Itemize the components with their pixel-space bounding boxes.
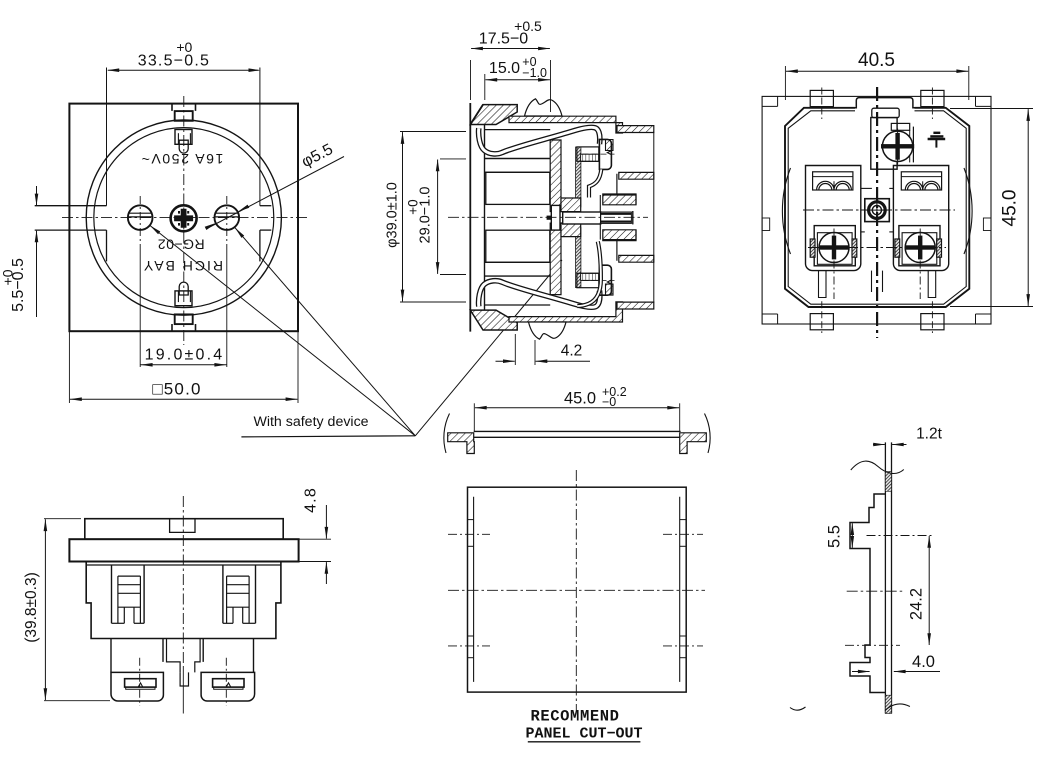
- section: brass strip bottom (dark): [576, 228, 581, 288]
- profile: top break squiggle: [851, 461, 904, 473]
- back view: right block foot: [928, 271, 936, 298]
- section: bottom terminal centerline: [583, 280, 615, 282]
- profile: socket outline behind panel: [850, 494, 885, 693]
- svg-text:φ39.0±1.0: φ39.0±1.0: [385, 182, 401, 248]
- section: centerline of screw axis: [448, 216, 648, 218]
- svg-text:(39.8±0.3): (39.8±0.3): [23, 572, 40, 643]
- section: bottom rim wall (hatched): [509, 302, 623, 322]
- panel section: sheet: [474, 430, 681, 432]
- back view: left claw window mark: [762, 218, 770, 231]
- front view: socket body square outline: [69, 104, 298, 332]
- back view: main horizontal centerline: [803, 209, 955, 211]
- section: thread boss outline: [599, 195, 601, 212]
- back view: body cylinder silhouette arcs: [782, 168, 790, 254]
- front view: horizontal centerline: [62, 217, 309, 219]
- front view: bottom earth-clip body: [175, 291, 192, 306]
- front view: bottom earth-clip window: [175, 314, 193, 324]
- section: bottom terminal clamp yoke: [599, 265, 611, 295]
- front view: top earth-clip body: [175, 130, 192, 145]
- panel cut-out: notch centerlines: [448, 533, 490, 535]
- front view: top earth-clip opening ticks: [171, 104, 173, 111]
- svg-text:−1.0: −1.0: [522, 66, 547, 80]
- back view: left live screw module: [814, 226, 855, 266]
- front view: left contact hole: [128, 205, 153, 230]
- panel cut-out: square: [468, 487, 687, 692]
- section: brass strip top (dark): [576, 147, 581, 207]
- section: cavity back wall (hatched): [550, 140, 561, 212]
- side view: left faston block: [111, 672, 163, 701]
- panel cut-out: right notch strip: [679, 497, 681, 682]
- section: top terminal screw head (hatched): [606, 140, 614, 151]
- back view: flange corner steps: [762, 96, 778, 106]
- front view: vertical centerline: [183, 96, 185, 345]
- profile: dimension 24.2: [928, 536, 930, 645]
- section: rear housing step outline bottom: [603, 230, 636, 261]
- svg-text:+0: +0: [0, 269, 16, 285]
- back view: flange outline: [762, 96, 991, 324]
- front view: inner recess circle: [94, 128, 274, 308]
- panel cut-out: horizontal centerline: [448, 589, 705, 591]
- front view: dimension square 50.0: [68, 331, 70, 403]
- back view: mounting tab bottom-right: [921, 314, 944, 330]
- front view: center fixing screw circle: [171, 205, 197, 231]
- profile: claw centerlines: [867, 535, 933, 537]
- side view: left claw: [111, 565, 113, 623]
- side view: body under flange: [86, 561, 281, 638]
- front view: top earth-clip window: [175, 111, 193, 121]
- svg-text:PANEL CUT−OUT: PANEL CUT−OUT: [525, 726, 642, 743]
- side view: top cap: [85, 519, 283, 540]
- panel section: left edge (hatched): [448, 433, 475, 454]
- svg-text:With safety device: With safety device: [253, 414, 368, 430]
- front view: bottom earth-clip opening ticks: [171, 324, 173, 331]
- section: top earth strap (section): [479, 127, 600, 154]
- back view: center nut square: [865, 199, 890, 222]
- front view: left hole shutter lines: [128, 212, 152, 214]
- profile: panel sheet: [884, 442, 886, 713]
- svg-text:45.0: 45.0: [1000, 190, 1021, 227]
- section: dimension 15.0 +0/-1.0: [484, 74, 486, 100]
- section: rear housing boss bottom (hatched): [603, 230, 636, 241]
- section: top terminal screw thread: [581, 154, 599, 161]
- side view: dimension (39.8±0.3): [44, 519, 46, 700]
- profile: centerline horizontal: [847, 590, 904, 592]
- front view: top earth-clip tongue: [179, 140, 188, 153]
- back view: left terminal block: [806, 166, 861, 271]
- svg-text:16A 250V~: 16A 250V~: [140, 151, 223, 167]
- back view: left wire-entry arches: [813, 172, 853, 190]
- section: center screw shaft: [563, 212, 601, 224]
- back view: bottom screws horizontal centerline: [808, 247, 946, 249]
- svg-text:□50.0: □50.0: [152, 380, 201, 399]
- svg-text:33.5−0.5: 33.5−0.5: [138, 52, 210, 69]
- svg-text:1.2t: 1.2t: [916, 426, 943, 443]
- back view: dimension 45.0: [950, 108, 1033, 110]
- section: cup lip line bottom: [485, 304, 551, 306]
- front view: left claw window: [35, 205, 107, 207]
- profile: dimension 4.0: [852, 671, 870, 673]
- back view: right module side brackets: [895, 239, 900, 257]
- section: hub boss (hatched) below shaft: [561, 223, 581, 237]
- panel section: dimension 45.0 +0.2/-0: [473, 403, 475, 431]
- section: flange rear face: [484, 125, 486, 311]
- back view: earth terminal module: [871, 118, 897, 170]
- panel cut-out: left notch strip: [473, 497, 475, 682]
- svg-text:19.0±0.4: 19.0±0.4: [145, 347, 225, 364]
- section: dimension phi 39.0±1.0: [400, 131, 466, 133]
- section: top flange lip (hatched): [470, 105, 517, 125]
- section: top cord flag: [525, 99, 563, 116]
- front view: center screw phillips cross: [175, 209, 193, 227]
- front view: right hole centerline: [226, 196, 228, 248]
- front view: left hole centerline: [139, 196, 141, 248]
- back view: bottom stem lines: [871, 271, 873, 292]
- section: center screw head: [551, 205, 560, 230]
- panel section: right break arc: [705, 414, 711, 454]
- side view: lower pedestals: [111, 639, 254, 673]
- panel section: left break arc: [444, 414, 450, 454]
- back view: right claw window mark: [983, 218, 991, 231]
- section: second bottom tab (hatched): [619, 255, 654, 262]
- svg-text:+0: +0: [406, 199, 421, 214]
- svg-text:+0.5: +0.5: [514, 18, 542, 34]
- front view: dimension 19.0±0.4: [139, 248, 141, 367]
- section: dimension 4.2: [514, 334, 516, 365]
- front view: right claw window: [260, 205, 271, 207]
- section: top conductor bend: [589, 169, 601, 197]
- profile: sheet hatched top: [885, 472, 891, 492]
- back view: mounting tab top-right: [921, 90, 944, 106]
- side view: lug centerlines: [139, 658, 141, 706]
- section: bottom mounting tab (hatched): [617, 302, 654, 309]
- svg-text:4.8: 4.8: [303, 487, 320, 513]
- side view: top cap center notch: [170, 519, 195, 533]
- svg-text:+0: +0: [176, 39, 192, 55]
- section: hub boss (hatched) above shaft: [561, 198, 581, 212]
- svg-text:RECOMMEND: RECOMMEND: [530, 708, 619, 726]
- back view: center nut ring: [869, 202, 886, 219]
- panel cut-out: vertical centerline: [575, 470, 577, 712]
- svg-text:40.5: 40.5: [858, 50, 895, 71]
- profile: sheet hatched bottom: [885, 695, 891, 713]
- back view: body top-centre bulge: [855, 98, 915, 108]
- side view: center stem: [167, 639, 201, 673]
- section: rear housing boss top (hatched): [603, 194, 636, 205]
- svg-text:4.0: 4.0: [912, 653, 935, 671]
- front view: right hole shutter lines: [215, 212, 239, 214]
- back view: body outline (chamfered): [785, 108, 969, 307]
- back view: earth pocket top: [872, 108, 899, 117]
- profile: bottom break squiggle: [885, 704, 910, 711]
- section: bottom flange lip (hatched): [470, 310, 517, 330]
- svg-text:24.2: 24.2: [908, 588, 926, 620]
- back view: left block foot: [819, 271, 827, 298]
- side view: right faston block: [201, 672, 255, 701]
- section: top terminal clamp yoke: [599, 139, 611, 169]
- side view: dimension 4.8: [299, 538, 331, 540]
- section: cavity bottom wall: [485, 275, 551, 277]
- back view: mounting tab bottom-left: [810, 314, 833, 330]
- back view: left module side brackets: [810, 239, 815, 257]
- leader: with safety device lines: [150, 225, 416, 435]
- svg-text:4.2: 4.2: [561, 343, 583, 360]
- section: cavity recess rectangle bottom: [486, 230, 550, 262]
- svg-text:15.0: 15.0: [489, 60, 520, 77]
- section: dimension 17.5 +0.5/-0: [470, 60, 472, 100]
- side view: flange: [69, 539, 298, 561]
- section: cavity top wall: [485, 158, 551, 160]
- section: rear plane line: [653, 133, 655, 303]
- section: center screw thread: [601, 212, 632, 223]
- side view: vertical centerline: [182, 496, 184, 668]
- side view: body shoulder line: [86, 564, 281, 566]
- section: cavity recess rectangle top: [486, 172, 550, 204]
- section: bottom terminal screw thread: [581, 273, 599, 280]
- section: second tab (hatched): [619, 172, 654, 179]
- section: top mounting tab (hatched): [617, 126, 654, 133]
- svg-text:45.0: 45.0: [564, 389, 596, 407]
- back view: dimension 40.5: [784, 66, 786, 100]
- section: cup lip line top: [485, 129, 551, 131]
- section: bottom cord flag: [529, 322, 567, 339]
- side view: left faston lug: [125, 679, 156, 687]
- front view: dimension 33.5 +0/-0.5: [108, 69, 259, 71]
- back view: earth symbol: [933, 132, 940, 134]
- svg-text:RICH BAY: RICH BAY: [142, 258, 223, 274]
- back view: earth terminal screw: [882, 131, 912, 161]
- section: flange front face: [469, 103, 471, 332]
- section: bottom terminal screw head (hatched): [606, 284, 614, 295]
- back view: link lines: [861, 187, 872, 189]
- svg-text:−0: −0: [602, 395, 616, 409]
- side view: right faston lug: [213, 679, 244, 687]
- back view: main vertical centerline: [876, 87, 878, 338]
- section: top terminal centerline: [583, 153, 615, 155]
- back view: inner panel octagon: [788, 111, 966, 304]
- svg-text:5.5: 5.5: [826, 525, 844, 548]
- section: top rim wall (hatched): [509, 116, 623, 133]
- back view: mounting tab top-left: [810, 90, 833, 106]
- section: bottom conductor to earth strap: [577, 242, 601, 307]
- front view: right contact hole: [215, 205, 240, 230]
- section: rear housing step outline top: [603, 174, 636, 205]
- back view: right terminal block: [893, 166, 948, 271]
- front view: dimension 5.5 +0/-0.5 (left): [36, 186, 38, 205]
- front view: outer recess circle: [86, 120, 281, 315]
- front view: bottom earth-clip tongue: [179, 282, 188, 295]
- section: bottom earth strap (section): [479, 281, 600, 308]
- back view: right wire-entry arches: [901, 172, 941, 190]
- section: dimension 29.0 +0/-1.0: [440, 158, 466, 160]
- profile: dimension 5.5: [851, 523, 853, 548]
- panel section: right edge (hatched): [680, 433, 707, 454]
- side view: right claw: [255, 565, 257, 623]
- back view: right neutral screw module: [899, 226, 940, 266]
